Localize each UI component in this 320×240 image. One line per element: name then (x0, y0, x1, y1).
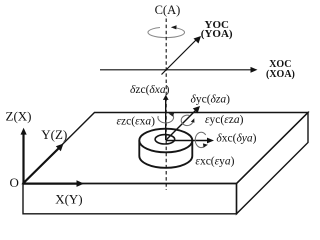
svg-text:εyc(εza): εyc(εza) (205, 114, 244, 126)
svg-text:δzc(δxa): δzc(δxa) (130, 84, 170, 96)
svg-text:O: O (10, 175, 19, 190)
svg-text:(YOA): (YOA) (201, 28, 233, 40)
svg-text:Y(Z): Y(Z) (41, 127, 67, 142)
svg-text:εxc(εya): εxc(εya) (195, 156, 234, 168)
svg-text:(XOA): (XOA) (266, 69, 295, 80)
svg-text:C(A): C(A) (155, 3, 181, 17)
svg-text:δyc(δza): δyc(δza) (191, 94, 231, 106)
svg-text:εzc(εxa): εzc(εxa) (117, 116, 156, 128)
svg-text:δxc(δya): δxc(δya) (216, 132, 256, 144)
svg-text:Z(X): Z(X) (6, 108, 32, 123)
svg-text:X(Y): X(Y) (55, 192, 82, 207)
